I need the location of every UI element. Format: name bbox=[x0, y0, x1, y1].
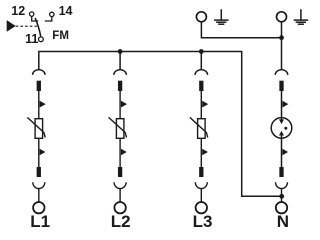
svg-text:L1: L1 bbox=[30, 212, 50, 231]
svg-text:14: 14 bbox=[59, 4, 73, 18]
svg-text:L2: L2 bbox=[111, 212, 131, 231]
svg-text:12: 12 bbox=[11, 4, 25, 18]
svg-text:FM: FM bbox=[52, 30, 69, 42]
svg-text:11: 11 bbox=[25, 32, 38, 46]
svg-text:L3: L3 bbox=[193, 212, 213, 231]
svg-text:N: N bbox=[277, 212, 289, 231]
